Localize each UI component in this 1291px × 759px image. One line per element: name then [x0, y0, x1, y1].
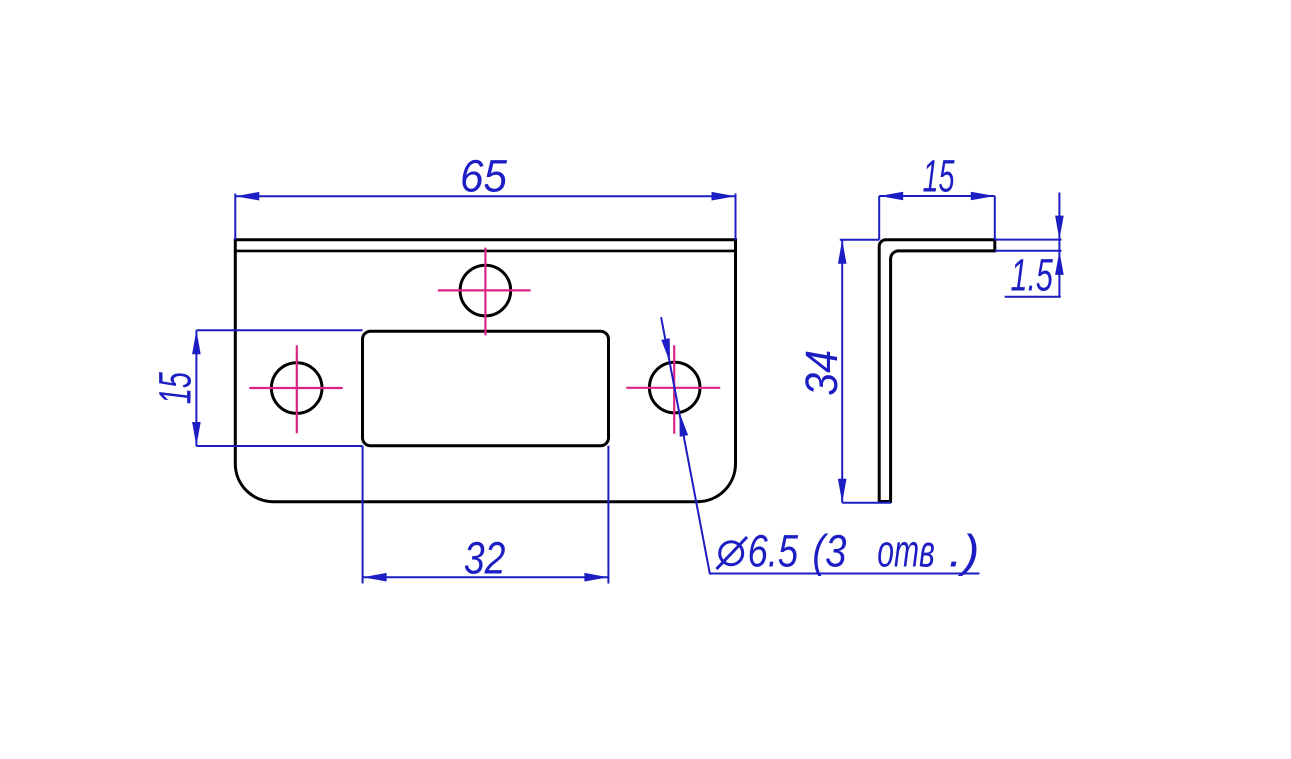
svg-text:.): .)	[949, 526, 980, 577]
svg-text:15: 15	[923, 150, 956, 201]
svg-text:15: 15	[149, 371, 200, 404]
svg-text:отв: отв	[877, 526, 935, 577]
svg-text:(3: (3	[812, 526, 846, 577]
svg-text:1.5: 1.5	[1011, 250, 1054, 301]
svg-text:65: 65	[460, 151, 508, 202]
svg-text:32: 32	[464, 532, 506, 583]
svg-text:34: 34	[796, 350, 847, 396]
svg-text:6.5: 6.5	[748, 526, 799, 577]
